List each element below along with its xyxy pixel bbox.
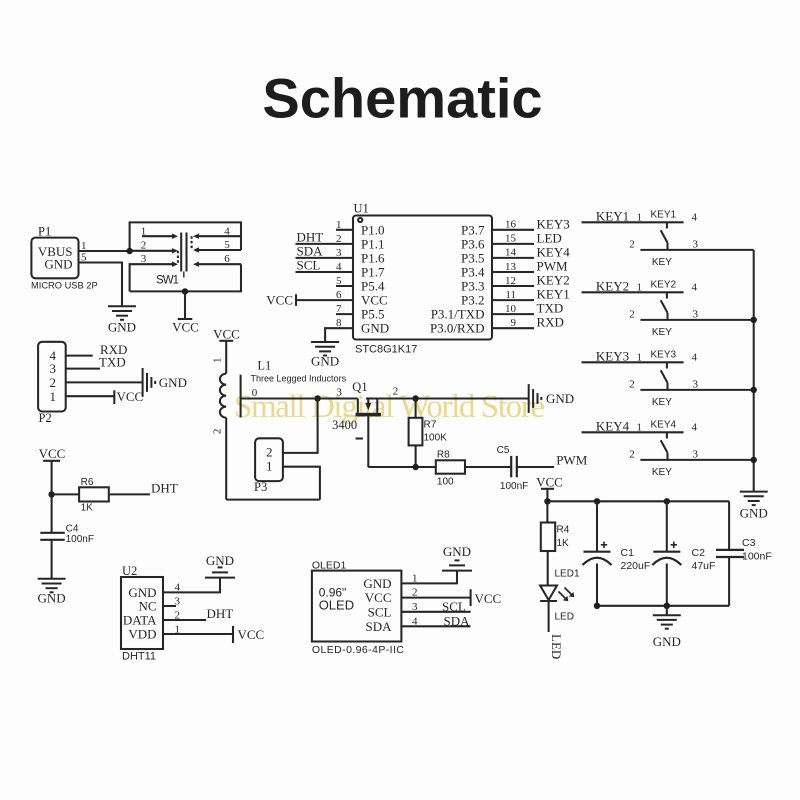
svg-text:Small Digital World Store: Small Digital World Store bbox=[234, 389, 545, 425]
svg-text:LED1: LED1 bbox=[555, 569, 580, 580]
wire U1 pin6 + power VCC bbox=[266, 289, 353, 307]
power VCC (L1) bbox=[213, 327, 240, 374]
svg-text:4: 4 bbox=[692, 212, 698, 224]
wire L1 to P3 bottom bbox=[226, 499, 320, 501]
wire OLED pin3 net SCL bbox=[401, 599, 470, 614]
svg-text:1K: 1K bbox=[557, 538, 570, 549]
svg-text:VCC: VCC bbox=[475, 591, 502, 606]
svg-text:RXD: RXD bbox=[537, 315, 564, 330]
svg-text:SCL: SCL bbox=[297, 258, 321, 273]
svg-text:3: 3 bbox=[141, 253, 147, 265]
svg-text:220uF: 220uF bbox=[621, 560, 651, 572]
junction rail-KEY3 bbox=[751, 387, 757, 393]
svg-text:LED: LED bbox=[549, 634, 564, 659]
svg-text:DHT: DHT bbox=[151, 480, 178, 495]
svg-text:4: 4 bbox=[692, 422, 698, 434]
wire U2 pin2 net DHT bbox=[163, 606, 233, 622]
svg-text:KEY2: KEY2 bbox=[651, 279, 677, 290]
svg-text:OLED-0.96-4P-IIC: OLED-0.96-4P-IIC bbox=[312, 644, 404, 656]
svg-text:12: 12 bbox=[505, 275, 516, 287]
svg-text:2: 2 bbox=[629, 379, 635, 391]
svg-text:6: 6 bbox=[224, 253, 230, 265]
svg-text:2: 2 bbox=[175, 610, 181, 622]
wire P3 pin1 bbox=[283, 467, 320, 500]
svg-text:C4: C4 bbox=[66, 524, 79, 535]
svg-text:2: 2 bbox=[629, 239, 635, 251]
svg-text:2: 2 bbox=[629, 309, 635, 321]
svg-text:Schematic: Schematic bbox=[262, 67, 542, 130]
wire P1 pin1 to SW1 bbox=[79, 240, 130, 252]
wire U1 pin12 net KEY2 bbox=[492, 273, 570, 288]
wire U1 pin11 net KEY1 bbox=[492, 287, 570, 302]
svg-text:3: 3 bbox=[336, 387, 342, 399]
capacitor C5 100nF bbox=[497, 445, 588, 492]
junction P1-SW1 bbox=[126, 248, 132, 254]
svg-text:P3.3: P3.3 bbox=[461, 279, 484, 294]
ground GND (Q1 drain) bbox=[529, 384, 574, 413]
svg-text:P3.1/TXD: P3.1/TXD bbox=[431, 307, 485, 322]
wire U2 pin3 stub bbox=[163, 596, 181, 608]
svg-text:TXD: TXD bbox=[99, 355, 126, 370]
wire U1 pin2 net DHT bbox=[296, 230, 354, 245]
svg-text:GND: GND bbox=[361, 321, 389, 336]
svg-text:1: 1 bbox=[81, 240, 87, 252]
svg-text:3: 3 bbox=[693, 449, 699, 461]
svg-text:P3.0/RXD: P3.0/RXD bbox=[430, 321, 485, 336]
svg-text:1: 1 bbox=[637, 282, 643, 294]
svg-text:P3.7: P3.7 bbox=[461, 222, 485, 237]
svg-text:2: 2 bbox=[393, 386, 399, 398]
svg-text:VCC: VCC bbox=[117, 389, 144, 404]
svg-text:3: 3 bbox=[693, 379, 699, 391]
svg-text:2: 2 bbox=[141, 240, 147, 252]
svg-text:VCC: VCC bbox=[238, 627, 265, 642]
svg-text:1: 1 bbox=[637, 352, 643, 364]
svg-text:100nF: 100nF bbox=[66, 534, 94, 545]
svg-text:GND: GND bbox=[443, 544, 471, 559]
ground GND (C2 bottom) bbox=[653, 606, 681, 649]
ground GND (U1 pin8) bbox=[311, 342, 339, 369]
svg-text:GND: GND bbox=[363, 576, 391, 591]
svg-text:L1: L1 bbox=[257, 359, 271, 373]
switch KEY4 bbox=[582, 419, 754, 478]
resistor R6 1K bbox=[52, 477, 178, 514]
svg-text:VCC: VCC bbox=[361, 293, 388, 308]
svg-text:C2: C2 bbox=[692, 547, 706, 559]
switch SW1 bbox=[130, 222, 241, 291]
svg-text:P3.2: P3.2 bbox=[461, 293, 484, 308]
svg-text:2: 2 bbox=[629, 449, 635, 461]
transistor Q1 3400 bbox=[332, 380, 381, 467]
IC U1 STC8G1K17 bbox=[353, 202, 492, 356]
wire Q1 drain to GND bbox=[377, 397, 528, 399]
wire key rail bbox=[753, 250, 755, 492]
wire P2 pin1 + power VCC bbox=[66, 389, 144, 404]
connector P3 bbox=[254, 438, 283, 494]
svg-text:P2: P2 bbox=[39, 411, 52, 425]
svg-text:GND: GND bbox=[159, 375, 187, 390]
svg-text:KEY: KEY bbox=[652, 257, 672, 268]
ground GND (C4) bbox=[38, 579, 66, 606]
wire OLED pin2 + power VCC bbox=[401, 587, 501, 606]
svg-text:GND: GND bbox=[108, 320, 136, 335]
resistor R8 100 bbox=[436, 450, 511, 488]
svg-text:KEY1: KEY1 bbox=[537, 287, 570, 302]
svg-text:SCL: SCL bbox=[368, 604, 392, 619]
svg-text:VCC: VCC bbox=[39, 446, 66, 461]
svg-text:VCC: VCC bbox=[536, 474, 563, 489]
wire VCC rail top bbox=[547, 500, 729, 502]
svg-text:P1.6: P1.6 bbox=[361, 250, 385, 265]
svg-text:P3: P3 bbox=[254, 480, 267, 494]
svg-text:U2: U2 bbox=[122, 564, 137, 578]
svg-text:4: 4 bbox=[336, 261, 342, 273]
svg-text:VDD: VDD bbox=[128, 627, 156, 642]
svg-text:100nF: 100nF bbox=[500, 481, 528, 492]
svg-text:KEY3: KEY3 bbox=[596, 349, 629, 364]
display OLED1 bbox=[312, 560, 404, 657]
wire U1 pin1 stub bbox=[336, 219, 353, 231]
svg-text:100K: 100K bbox=[424, 433, 448, 444]
svg-text:100: 100 bbox=[437, 477, 454, 488]
svg-text:KEY1: KEY1 bbox=[651, 209, 677, 220]
wire L1 tap to Q1 bbox=[241, 397, 358, 399]
svg-text:GND: GND bbox=[44, 257, 72, 272]
svg-text:LED: LED bbox=[537, 230, 562, 245]
junction rail-R4 bbox=[544, 498, 550, 504]
wire U1 pin4 net SCL bbox=[296, 258, 354, 273]
wire U1 pin16 net KEY3 bbox=[492, 216, 570, 231]
svg-text:OLED1: OLED1 bbox=[312, 560, 347, 572]
svg-text:VCC: VCC bbox=[365, 590, 392, 605]
junction rail-KEY2 bbox=[751, 317, 757, 323]
resistor R4 1K bbox=[541, 501, 570, 585]
svg-text:P1.7: P1.7 bbox=[361, 265, 385, 280]
svg-text:4: 4 bbox=[175, 582, 181, 594]
svg-text:P3.6: P3.6 bbox=[461, 236, 485, 251]
svg-text:1: 1 bbox=[412, 572, 418, 584]
power VCC (under SW1) bbox=[172, 291, 199, 334]
svg-text:TXD: TXD bbox=[537, 301, 564, 316]
svg-text:GND: GND bbox=[653, 634, 681, 649]
svg-text:PWM: PWM bbox=[537, 259, 569, 274]
svg-text:P3.4: P3.4 bbox=[461, 265, 485, 280]
wire U1 pin3 net SDA bbox=[296, 244, 354, 259]
wire U1 pin7 stub bbox=[336, 303, 353, 315]
svg-text:KEY3: KEY3 bbox=[537, 216, 570, 231]
svg-text:R6: R6 bbox=[81, 477, 94, 488]
svg-text:1: 1 bbox=[141, 226, 147, 238]
svg-text:P5.5: P5.5 bbox=[361, 307, 384, 322]
svg-text:10: 10 bbox=[505, 303, 517, 315]
wire P2 pin2 to ground bbox=[66, 368, 187, 397]
svg-text:1K: 1K bbox=[81, 503, 94, 514]
svg-text:P1: P1 bbox=[38, 225, 51, 239]
switch KEY2 bbox=[582, 279, 754, 338]
svg-text:KEY4: KEY4 bbox=[596, 419, 630, 434]
svg-text:C3: C3 bbox=[742, 537, 756, 549]
svg-text:KEY2: KEY2 bbox=[537, 273, 570, 288]
svg-text:MICRO USB 2P: MICRO USB 2P bbox=[31, 281, 98, 291]
svg-text:3: 3 bbox=[412, 601, 418, 613]
svg-text:1: 1 bbox=[50, 389, 57, 404]
svg-text:GND: GND bbox=[311, 354, 339, 369]
junction L1-P3 bbox=[314, 395, 320, 401]
svg-text:3400: 3400 bbox=[332, 418, 357, 432]
junction Q1-R7 top bbox=[412, 395, 418, 401]
wire P2 pin3 net TXD bbox=[66, 355, 126, 370]
svg-text:5: 5 bbox=[224, 239, 230, 251]
svg-text:C5: C5 bbox=[497, 445, 510, 456]
svg-text:DATA: DATA bbox=[123, 613, 157, 628]
capacitor C2 47uF bbox=[652, 501, 715, 606]
LED LED1 bbox=[540, 569, 580, 623]
wire bottom rail bbox=[597, 605, 729, 607]
svg-text:SDA: SDA bbox=[444, 613, 471, 628]
svg-text:16: 16 bbox=[505, 219, 517, 231]
junction rail-KEY4 bbox=[751, 457, 757, 463]
svg-text:1: 1 bbox=[175, 624, 181, 636]
svg-text:U1: U1 bbox=[354, 202, 369, 216]
svg-text:KEY4: KEY4 bbox=[537, 244, 571, 259]
svg-text:4: 4 bbox=[412, 615, 418, 627]
svg-text:7: 7 bbox=[336, 303, 342, 315]
svg-text:0: 0 bbox=[252, 387, 258, 399]
svg-text:Q1: Q1 bbox=[352, 380, 367, 394]
svg-text:PWM: PWM bbox=[556, 453, 588, 468]
svg-text:KEY: KEY bbox=[652, 397, 672, 408]
ground GND (above U2) bbox=[205, 553, 235, 578]
wire P3 pin2 bbox=[283, 399, 318, 453]
svg-text:6: 6 bbox=[336, 289, 342, 301]
svg-text:47uF: 47uF bbox=[692, 560, 716, 572]
svg-text:P3.5: P3.5 bbox=[461, 250, 484, 265]
wire LED1 cathode + net LED bbox=[549, 601, 564, 659]
switch KEY3 bbox=[582, 349, 754, 408]
svg-text:9: 9 bbox=[511, 317, 517, 329]
svg-text:2: 2 bbox=[336, 233, 342, 245]
wire U1 pin14 net KEY4 bbox=[492, 244, 570, 259]
svg-text:DHT: DHT bbox=[297, 230, 324, 245]
svg-text:LED: LED bbox=[555, 612, 574, 623]
junction bottom-C2 bbox=[664, 603, 670, 609]
wire Q1 source to R8 bbox=[368, 466, 436, 468]
svg-text:1: 1 bbox=[637, 422, 643, 434]
wire U1 pin10 net TXD bbox=[492, 301, 563, 316]
inductor L1 Three Legged Inductors bbox=[212, 358, 347, 435]
svg-text:1: 1 bbox=[266, 459, 273, 474]
svg-text:3: 3 bbox=[175, 596, 181, 608]
junction R7-R8 bbox=[412, 464, 418, 470]
capacitor C4 100nF bbox=[40, 524, 94, 579]
svg-text:KEY4: KEY4 bbox=[651, 419, 677, 430]
svg-text:3: 3 bbox=[693, 239, 699, 251]
wire U2 pin1 + power VCC bbox=[163, 624, 264, 644]
wire U1 pin5 stub bbox=[336, 275, 353, 287]
svg-text:100nF: 100nF bbox=[742, 551, 772, 563]
svg-text:11: 11 bbox=[505, 289, 516, 301]
junction rail-C2 bbox=[664, 498, 670, 504]
svg-text:NC: NC bbox=[138, 599, 156, 614]
connector P2 bbox=[38, 342, 66, 425]
svg-text:KEY1: KEY1 bbox=[596, 209, 629, 224]
wire U1 pin13 net PWM bbox=[492, 259, 568, 274]
svg-text:KEY2: KEY2 bbox=[596, 279, 629, 294]
svg-text:P1.0: P1.0 bbox=[361, 222, 384, 237]
svg-text:KEY3: KEY3 bbox=[651, 349, 677, 360]
svg-text:VCC: VCC bbox=[266, 292, 293, 307]
svg-text:KEY: KEY bbox=[652, 327, 672, 338]
svg-text:1: 1 bbox=[336, 219, 342, 231]
connector P1 MICRO USB 2P bbox=[31, 225, 98, 291]
ground GND (key rail) bbox=[740, 492, 768, 521]
svg-text:STC8G1K17: STC8G1K17 bbox=[355, 344, 417, 356]
svg-text:R8: R8 bbox=[437, 450, 450, 461]
svg-text:VCC: VCC bbox=[172, 320, 199, 335]
svg-text:SDA: SDA bbox=[297, 244, 324, 259]
svg-text:14: 14 bbox=[505, 247, 517, 259]
junction SW1 common bbox=[182, 288, 188, 294]
wire U2 pin4 to ground bbox=[163, 578, 220, 594]
svg-text:4: 4 bbox=[692, 282, 698, 294]
svg-text:GND: GND bbox=[740, 506, 768, 521]
svg-text:3: 3 bbox=[50, 361, 57, 376]
svg-text:13: 13 bbox=[505, 261, 517, 273]
svg-text:GND: GND bbox=[206, 553, 234, 568]
svg-text:DHT11: DHT11 bbox=[122, 651, 156, 663]
wire P2 pin4 net RXD bbox=[66, 342, 128, 357]
ground GND (under P1) bbox=[108, 306, 136, 334]
svg-text:R4: R4 bbox=[557, 525, 570, 536]
IC U2 DHT11 bbox=[121, 564, 163, 663]
wire OLED pin4 net SDA bbox=[401, 613, 470, 628]
junction bottom-C1 bbox=[594, 603, 600, 609]
svg-text:1: 1 bbox=[637, 212, 643, 224]
svg-text:4: 4 bbox=[692, 352, 698, 364]
wire L1 pin2 bottom bbox=[225, 418, 227, 500]
power VCC (R6/C4 branch) bbox=[39, 446, 66, 533]
svg-text:3: 3 bbox=[693, 309, 699, 321]
wire OLED pin1 to ground bbox=[401, 571, 457, 585]
svg-text:P5.4: P5.4 bbox=[361, 279, 385, 294]
svg-text:GND: GND bbox=[38, 591, 66, 606]
svg-text:4: 4 bbox=[224, 226, 230, 238]
capacitor C1 220uF bbox=[583, 501, 651, 606]
svg-text:2: 2 bbox=[50, 375, 57, 390]
capacitor C3 100nF bbox=[716, 501, 772, 606]
svg-text:GND: GND bbox=[546, 391, 574, 406]
svg-text:KEY: KEY bbox=[652, 467, 672, 478]
svg-text:2: 2 bbox=[212, 429, 224, 435]
svg-text:1: 1 bbox=[212, 358, 224, 364]
svg-text:15: 15 bbox=[505, 233, 517, 245]
wire U1 pin9 net RXD bbox=[492, 315, 564, 330]
ground GND (above OLED) bbox=[442, 544, 472, 571]
svg-text:VCC: VCC bbox=[213, 327, 240, 342]
svg-text:R7: R7 bbox=[424, 420, 437, 431]
resistor R7 100K bbox=[409, 399, 448, 468]
junction rail-C1 bbox=[594, 498, 600, 504]
svg-text:SCL: SCL bbox=[442, 599, 466, 614]
svg-text:2: 2 bbox=[412, 587, 418, 599]
svg-text:2: 2 bbox=[266, 445, 273, 460]
switch KEY1 bbox=[582, 209, 754, 268]
junction VCC-R6-C4 bbox=[48, 491, 54, 497]
svg-text:5: 5 bbox=[336, 275, 342, 287]
svg-text:DHT: DHT bbox=[207, 606, 234, 621]
svg-text:P1.1: P1.1 bbox=[361, 236, 384, 251]
svg-text:8: 8 bbox=[336, 317, 342, 329]
svg-text:C1: C1 bbox=[621, 547, 635, 559]
svg-text:SDA: SDA bbox=[365, 619, 392, 634]
wire P1 pin5 to ground bbox=[79, 252, 123, 307]
wire U1 pin15 net LED bbox=[492, 230, 562, 245]
wire U1 pin8 to ground bbox=[325, 317, 353, 342]
svg-text:5: 5 bbox=[81, 252, 87, 264]
svg-text:OLED: OLED bbox=[319, 598, 354, 613]
svg-text:SW1: SW1 bbox=[156, 275, 179, 287]
svg-text:Three Legged Inductors: Three Legged Inductors bbox=[251, 374, 347, 384]
svg-text:3: 3 bbox=[336, 247, 342, 259]
power VCC (R4 rail) bbox=[536, 474, 563, 501]
